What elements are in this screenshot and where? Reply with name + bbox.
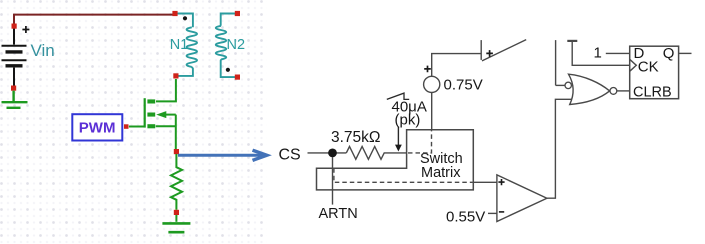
resistor Rsense	[171, 154, 182, 222]
source circle 0.75V	[424, 76, 440, 92]
wire CS input	[308, 152, 347, 154]
node marker battery -	[11, 86, 16, 91]
node marker CS (source node)	[174, 149, 179, 154]
node marker resistor bottom	[174, 210, 179, 215]
clock wedge	[630, 59, 637, 71]
node marker N2 bottom	[235, 75, 240, 80]
sawtooth pulse symbol	[387, 93, 409, 99]
plus sign at source	[424, 66, 431, 73]
wire 0.55V to minus input	[488, 212, 497, 214]
PWM block	[72, 114, 122, 140]
op-amp top comparator (clipped)	[481, 40, 526, 61]
svg-text:CS: CS	[279, 146, 301, 163]
current source arrow 40uA	[395, 127, 402, 152]
wire Vin+ to N1 (maroon top rail)	[14, 15, 174, 25]
NOR output bubble	[610, 88, 617, 95]
transformer winding N2	[216, 14, 236, 78]
wire PWM to gate	[129, 126, 145, 128]
phase dot N1	[183, 16, 187, 20]
dashed path ARTN through matrix	[334, 168, 473, 182]
ground (battery)	[2, 91, 28, 108]
svg-text:Vin: Vin	[31, 41, 55, 60]
wire top comparator output to NOR	[555, 40, 557, 85]
NOR gate U2	[569, 74, 610, 104]
node marker N1 bottom	[173, 73, 178, 78]
node marker N1 top	[172, 11, 177, 16]
blue arrow to CS	[178, 150, 267, 160]
battery V1 (Vin)	[2, 26, 27, 87]
phase dot N2	[226, 68, 230, 72]
wire NOR top input	[556, 84, 565, 86]
svg-text:Matrix: Matrix	[421, 165, 461, 181]
op-amp bottom comparator	[497, 175, 547, 222]
flip-flop U3	[630, 46, 679, 98]
wire Q output	[679, 52, 692, 54]
wire NOR to CLRB	[617, 90, 630, 92]
ground (source resistor)	[162, 223, 190, 232]
svg-text:CLRB: CLRB	[633, 85, 672, 101]
node marker PWM output	[124, 124, 129, 129]
svg-text:3.75kΩ: 3.75kΩ	[331, 129, 381, 146]
svg-text:N1: N1	[170, 37, 189, 53]
svg-text:1: 1	[594, 45, 602, 62]
node marker N2 top	[235, 11, 240, 16]
svg-text:Q: Q	[663, 45, 675, 62]
clock tee symbol	[567, 41, 629, 65]
svg-text:0.55V: 0.55V	[446, 209, 485, 226]
junction dot CS node	[328, 149, 337, 158]
svg-text:PWM: PWM	[79, 120, 116, 137]
svg-text:N2: N2	[227, 37, 246, 53]
resistor 3.75k	[346, 147, 406, 160]
wire 1 to D	[606, 52, 630, 54]
svg-text:CK: CK	[638, 59, 659, 76]
wire ARTN vertical	[332, 157, 334, 205]
transistor Q1 MOSFET	[144, 98, 146, 127]
wire source to comparator	[432, 54, 481, 130]
dashed path CS through matrix	[408, 130, 432, 153]
NOR input bubble	[565, 82, 571, 88]
node marker battery +	[12, 24, 17, 29]
svg-text:0.75V: 0.75V	[444, 77, 483, 94]
svg-text:(pk): (pk)	[395, 112, 421, 129]
svg-text:ARTN: ARTN	[319, 206, 358, 222]
transformer winding N1	[175, 14, 197, 76]
wire N1 to MOSFET drain	[156, 79, 176, 101]
wire matrix to comparator plus	[473, 181, 497, 183]
battery plus sign	[22, 26, 29, 33]
wire comparator output to NOR	[547, 99, 573, 198]
Switch Matrix box	[317, 130, 474, 190]
